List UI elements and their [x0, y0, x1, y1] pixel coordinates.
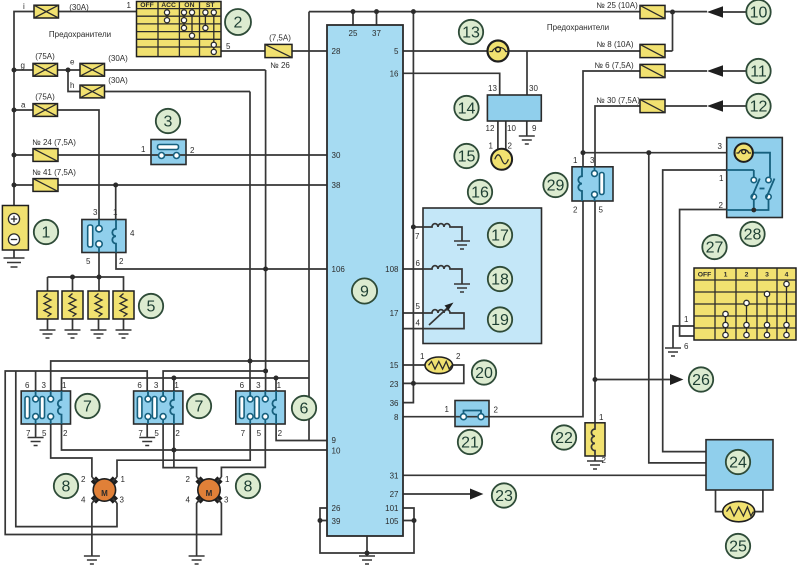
svg-text:4: 4	[81, 496, 86, 505]
fuse g (75A)	[21, 52, 58, 76]
svg-text:12: 12	[486, 124, 495, 133]
wire: ECU pin 17 to coil 19 and pin 4 return loop	[403, 313, 423, 329]
label: fuses title left	[49, 30, 111, 39]
wire: relay 4 pin 1 stub	[115, 185, 117, 220]
svg-text:5: 5	[226, 42, 231, 51]
wire: unit 28 pin 2 down to table 27	[680, 210, 727, 327]
svg-text:7: 7	[415, 232, 420, 241]
svg-text:19: 19	[491, 312, 509, 329]
svg-text:26: 26	[332, 504, 341, 513]
svg-text:3: 3	[256, 381, 261, 390]
ground: motor 1	[84, 556, 100, 564]
svg-text:№ 24 (7,5A): № 24 (7,5A)	[32, 138, 76, 147]
svg-text:№ 26: № 26	[270, 61, 290, 70]
svg-text:9: 9	[532, 124, 537, 133]
svg-text:2: 2	[719, 201, 724, 210]
callout 10	[746, 0, 770, 24]
callout 22	[552, 425, 576, 449]
wire: ECU pin 31 to unit 24	[403, 474, 706, 476]
svg-text:24: 24	[729, 455, 747, 472]
svg-text:28: 28	[744, 227, 762, 244]
wire: table 27 pin 1/6 bracket and ground branch	[673, 326, 694, 348]
wire: relay 6 pin 5 to motor 2 pin 1	[221, 424, 265, 477]
wire: fuse 41 / ECU pin 38 line	[14, 184, 327, 186]
svg-text:3: 3	[224, 496, 229, 505]
svg-text:2: 2	[186, 475, 191, 484]
svg-text:1: 1	[121, 475, 126, 484]
lamp 13	[488, 41, 509, 62]
svg-text:Предохранители: Предохранители	[49, 30, 111, 39]
svg-text:3: 3	[154, 381, 159, 390]
relay 7a	[21, 381, 70, 438]
junction dots: resistor bus	[70, 275, 102, 280]
callout 13	[459, 20, 483, 44]
wire: motor 1 pin 4 ground lead	[91, 503, 93, 556]
ground: coil 18	[454, 284, 470, 292]
motor 8b	[186, 475, 231, 505]
svg-text:5: 5	[416, 302, 421, 311]
unit 24	[706, 440, 773, 490]
wire: motor 1 pin 3 loop to left	[16, 371, 117, 527]
callout 27	[702, 235, 726, 259]
coil 19 variable with arrow	[423, 303, 464, 329]
callout 7b	[187, 394, 211, 418]
ground: unit 14 pin 9	[519, 136, 535, 144]
wire: motor 2 pin 4 ground lead	[196, 503, 198, 556]
svg-text:7: 7	[138, 429, 143, 438]
junction dots: right area	[581, 150, 652, 382]
svg-text:37: 37	[372, 29, 381, 38]
wire: ECU pin 36 stub	[403, 383, 413, 402]
svg-text:1: 1	[724, 272, 728, 279]
wire: resistor bank ground stubs	[48, 319, 124, 330]
svg-text:23: 23	[495, 488, 513, 505]
relay 4	[82, 208, 126, 266]
svg-text:23: 23	[390, 380, 399, 389]
svg-text:30: 30	[332, 151, 341, 160]
svg-text:3: 3	[718, 142, 723, 151]
fuse No 41 (7,5A)	[32, 168, 76, 191]
svg-text:№ 8 (10A): № 8 (10A)	[596, 40, 633, 49]
svg-text:5: 5	[257, 429, 262, 438]
svg-text:30: 30	[529, 84, 538, 93]
wire: unit 28 pin 1 to unit 24	[663, 170, 727, 452]
svg-text:3: 3	[120, 496, 125, 505]
callout 3	[156, 109, 180, 133]
arrow 11	[707, 65, 746, 77]
svg-text:№ 6 (7,5A): № 6 (7,5A)	[594, 61, 634, 70]
junction dots: supply vertical taps	[411, 225, 416, 386]
svg-text:29: 29	[547, 178, 565, 195]
wire: top bypass vertical left of ECU	[308, 12, 310, 441]
relay 6	[236, 381, 285, 438]
svg-text:108: 108	[385, 265, 399, 274]
svg-text:101: 101	[385, 504, 399, 513]
svg-text:13: 13	[488, 84, 497, 93]
ground: battery	[4, 258, 25, 267]
svg-text:15: 15	[390, 361, 399, 370]
svg-text:3: 3	[93, 208, 98, 217]
wire: relay 7a pin 6 stub	[35, 371, 37, 391]
wire: resistor bank bus	[48, 253, 124, 291]
callout 15	[454, 144, 478, 168]
svg-text:3: 3	[765, 272, 769, 279]
callout 18	[488, 267, 512, 291]
svg-text:1: 1	[174, 381, 179, 390]
svg-text:1: 1	[225, 475, 230, 484]
svg-text:21: 21	[461, 435, 479, 452]
svg-text:a: a	[21, 101, 26, 110]
svg-text:105: 105	[385, 517, 399, 526]
ground: resistor 4	[116, 330, 132, 338]
svg-text:9: 9	[360, 284, 369, 301]
svg-text:13: 13	[462, 25, 480, 42]
coil 22	[585, 413, 607, 465]
resistor 20	[420, 352, 461, 374]
svg-text:2: 2	[602, 456, 607, 465]
svg-text:2: 2	[573, 206, 578, 215]
fuse No 30 (7,5A)	[596, 96, 665, 113]
fuse No 8 (10A)	[596, 40, 665, 58]
svg-text:4: 4	[186, 496, 191, 505]
arrow 12	[707, 100, 746, 112]
svg-text:6: 6	[240, 381, 245, 390]
wire: motor 2 pin 3 long loop to relay pins 6	[5, 371, 221, 535]
callout 1	[34, 220, 58, 244]
svg-text:17: 17	[491, 228, 509, 245]
svg-text:6: 6	[416, 259, 421, 268]
svg-text:8: 8	[394, 413, 399, 422]
wire: relay 29 pin 2 to ECU pin 8 switch line	[403, 201, 583, 417]
ground: relay 7a pin 7	[28, 438, 44, 446]
fuse a (75A)	[21, 93, 58, 117]
svg-text:6: 6	[137, 381, 142, 390]
resistor bank 5	[37, 291, 134, 319]
svg-text:6: 6	[684, 342, 689, 351]
svg-text:10: 10	[507, 124, 516, 133]
wire: relay contact feed line from fuse h node	[51, 361, 309, 391]
wire: fuse 6 line and relay 29 pin 1	[583, 71, 707, 167]
svg-text:1: 1	[277, 381, 282, 390]
svg-text:2: 2	[190, 146, 195, 155]
svg-text:14: 14	[458, 101, 476, 118]
wire: arrow 26 branch	[595, 379, 671, 381]
svg-text:5: 5	[147, 299, 156, 316]
svg-text:5: 5	[154, 429, 159, 438]
callout 14	[454, 96, 478, 120]
svg-text:16: 16	[471, 185, 489, 202]
svg-text:3: 3	[164, 114, 173, 131]
svg-text:31: 31	[390, 472, 399, 481]
junction dot: relay 4 pin 1 tap	[113, 183, 118, 188]
svg-text:1: 1	[113, 208, 118, 217]
fuse No 26 (7,5A)	[265, 34, 292, 71]
ground: table 27	[665, 348, 681, 356]
callout 19	[488, 307, 512, 331]
svg-text:№ 25 (10A): № 25 (10A)	[596, 1, 638, 10]
svg-text:17: 17	[390, 309, 399, 318]
svg-text:1: 1	[420, 352, 425, 361]
fuse i (30A)	[23, 2, 89, 18]
svg-text:6: 6	[300, 401, 309, 418]
svg-text:Предохранители: Предохранители	[547, 23, 609, 32]
wire: unit 14 pin 30 stub	[526, 51, 528, 95]
svg-text:10: 10	[750, 5, 768, 22]
svg-text:(7,5A): (7,5A)	[269, 34, 291, 43]
svg-text:2: 2	[508, 142, 513, 151]
arrow 23 head	[470, 489, 483, 500]
label: fuses title right	[547, 23, 609, 32]
callout 24	[726, 450, 750, 474]
svg-text:15: 15	[458, 149, 476, 166]
wire: fuse 30 line and relay 29 pin 3	[595, 106, 707, 167]
svg-text:1: 1	[127, 1, 132, 10]
wire: ECU bottom ground stub	[366, 536, 368, 556]
svg-text:27: 27	[706, 240, 724, 257]
svg-text:39: 39	[332, 517, 341, 526]
callout 21	[458, 430, 482, 454]
lamp-switch unit 28	[718, 138, 783, 218]
svg-text:ACC: ACC	[161, 2, 176, 9]
svg-text:OFF: OFF	[140, 2, 154, 9]
svg-text:1: 1	[445, 405, 450, 414]
svg-text:i: i	[23, 2, 25, 11]
wire: ECU pin 5 lamp line to fuse 8	[403, 12, 673, 51]
svg-text:8: 8	[244, 479, 253, 496]
svg-text:ON: ON	[184, 2, 194, 9]
ground: resistor 3	[91, 330, 107, 338]
svg-text:h: h	[70, 81, 74, 90]
svg-text:№ 30 (7,5A): № 30 (7,5A)	[596, 96, 640, 105]
callout 9	[352, 278, 377, 303]
callout 23	[492, 483, 516, 507]
svg-text:10: 10	[332, 447, 341, 456]
wire: ECU pins 26/39 bottom bracket left	[320, 508, 367, 553]
ground: coil 17	[454, 241, 470, 249]
wire: relay 29 pin 5 to coil 22	[594, 201, 596, 423]
svg-text:5: 5	[86, 257, 91, 266]
svg-text:1: 1	[599, 413, 604, 422]
wire: ignition table pin 5 to fuse 26 to ECU pin 28	[221, 50, 327, 52]
coil 18	[423, 266, 462, 284]
ground: coil 22	[587, 461, 603, 469]
wire: relay 7b pin 5 to motor 2 pin 2	[163, 424, 197, 477]
callout 12	[746, 94, 770, 118]
svg-text:16: 16	[390, 70, 399, 79]
junction dots: left rail	[12, 68, 71, 188]
fuse e (30A)	[70, 54, 128, 76]
wire: fuse a to relay 4 pin 3	[14, 110, 99, 220]
coil 17	[423, 224, 462, 241]
svg-text:38: 38	[332, 181, 341, 190]
callout 8b	[236, 474, 260, 498]
svg-text:26: 26	[692, 372, 710, 389]
svg-text:(75A): (75A)	[35, 93, 55, 102]
svg-text:106: 106	[332, 265, 346, 274]
ground: resistor 1	[40, 330, 56, 338]
junction dots: ECU bottom bracket	[318, 518, 417, 556]
svg-text:ST: ST	[206, 2, 216, 9]
svg-text:2: 2	[175, 429, 180, 438]
callout 17	[488, 223, 512, 247]
callout 16	[468, 180, 492, 204]
wire: fuse 24 / switch 3 / ECU pin 30 line	[14, 154, 327, 156]
svg-text:2: 2	[745, 272, 749, 279]
svg-text:1: 1	[684, 315, 689, 324]
svg-text:4: 4	[130, 229, 135, 238]
svg-text:3: 3	[42, 381, 47, 390]
label: component 4	[130, 229, 135, 238]
svg-text:1: 1	[719, 174, 724, 183]
svg-text:2: 2	[494, 406, 499, 415]
wire: ECU pin 15 to resistor 20 and pin 23 return	[403, 365, 464, 383]
svg-text:4: 4	[416, 319, 421, 328]
wire: relay 6 pin 7 to motor 1 pin 1	[117, 424, 250, 477]
wire: fuse g/e feed line	[14, 69, 266, 71]
wire: relay 7b pin 7 ground stub	[146, 424, 148, 438]
source 15	[489, 142, 513, 170]
wire: left battery rail with fuse i feed	[14, 12, 137, 207]
svg-text:(30A): (30A)	[69, 3, 89, 12]
svg-text:36: 36	[390, 399, 399, 408]
svg-text:1: 1	[489, 142, 494, 151]
callout 5	[139, 294, 163, 318]
svg-text:2: 2	[456, 352, 461, 361]
wire: fuse e output down to relay 6 pin 3	[265, 70, 267, 391]
coil unit 17-19	[415, 208, 541, 344]
svg-text:6: 6	[25, 381, 30, 390]
svg-text:22: 22	[555, 430, 573, 447]
ground: motor 2	[189, 556, 205, 564]
ECU unit 9	[327, 25, 403, 536]
wire: ECU pins 101/105 bottom bracket right	[367, 508, 414, 553]
svg-text:2: 2	[81, 475, 86, 484]
svg-text:g: g	[21, 61, 25, 70]
svg-text:3: 3	[590, 156, 595, 165]
svg-text:2: 2	[119, 257, 124, 266]
svg-text:1: 1	[42, 225, 51, 242]
callout 7a	[75, 394, 99, 418]
svg-text:1: 1	[62, 381, 67, 390]
svg-text:12: 12	[750, 99, 768, 116]
wire: relay 7a pin 7 ground stub	[35, 424, 37, 438]
wire: ECU pin 27 line	[403, 493, 471, 495]
ignition switch table 2	[127, 1, 232, 57]
callout 29	[543, 173, 567, 197]
svg-text:2: 2	[63, 429, 68, 438]
svg-text:25: 25	[349, 29, 358, 38]
callout 8a	[54, 474, 78, 498]
wire: fuse h output down to relay node	[249, 92, 251, 392]
svg-text:25: 25	[729, 539, 747, 556]
svg-text:2: 2	[278, 429, 283, 438]
svg-text:5: 5	[599, 206, 604, 215]
ground: resistor 2	[65, 330, 81, 338]
svg-text:4: 4	[785, 272, 789, 279]
wire: battery ground stub	[13, 250, 15, 258]
arrow 10	[707, 6, 746, 18]
callout 20	[472, 360, 496, 384]
svg-text:9: 9	[332, 436, 337, 445]
junction dots: relay feed lines	[171, 267, 278, 453]
arrow 26 head	[670, 374, 683, 385]
wire: supply vertical right of ECU	[412, 12, 414, 384]
callout 26	[689, 367, 713, 391]
switch 3	[141, 140, 195, 165]
svg-text:11: 11	[750, 64, 767, 81]
relay 29	[572, 156, 613, 215]
wire: fuse h branch	[68, 70, 250, 92]
relay 7b	[134, 381, 183, 438]
switch 21	[445, 401, 499, 427]
callout 11	[746, 59, 770, 83]
wire: coil 22 ground stub	[594, 456, 596, 461]
svg-text:7: 7	[241, 429, 246, 438]
svg-text:7: 7	[83, 399, 92, 416]
svg-text:M: M	[101, 489, 108, 498]
switch selector table 27	[684, 268, 796, 351]
svg-text:M: M	[206, 489, 213, 498]
svg-text:OFF: OFF	[698, 272, 712, 279]
ground: relay 7b pin 7	[139, 438, 155, 446]
wire: unit 14 pins 12/10 to source 15 and pin 9 ground	[498, 121, 527, 149]
ground: ECU bottom	[359, 556, 375, 564]
wire: coil 17 feed from supply vertical	[413, 226, 423, 228]
svg-text:2: 2	[234, 15, 243, 32]
svg-text:20: 20	[475, 365, 493, 382]
svg-text:7: 7	[195, 399, 204, 416]
wire: relay 7a pin 5 to motor 1 pin 2	[51, 424, 92, 477]
svg-text:e: e	[70, 58, 75, 67]
wire: ECU pin 16 to unit 14 pin 13	[403, 73, 500, 95]
wire: relay 7b pin 3 to relay 6 pin 3 link	[163, 371, 266, 391]
svg-text:5: 5	[42, 429, 47, 438]
svg-text:(75A): (75A)	[35, 52, 55, 61]
fuse No 25 (10A)	[596, 1, 665, 19]
fuse No 24 (7,5A)	[32, 138, 76, 161]
wire: lamp 25 bracket under unit 24	[716, 490, 763, 512]
wire: relay 4 pin 2 to ECU pin 106 / coil 18 pin 108	[116, 253, 423, 269]
callout 6	[292, 396, 316, 420]
lamp 25	[723, 501, 755, 521]
svg-text:(30A): (30A)	[108, 76, 128, 85]
svg-text:8: 8	[62, 479, 71, 496]
svg-text:27: 27	[390, 490, 399, 499]
fuse h (30A)	[70, 76, 128, 98]
svg-text:5: 5	[394, 47, 399, 56]
svg-text:28: 28	[332, 47, 341, 56]
svg-text:№ 41 (7,5A): № 41 (7,5A)	[32, 168, 76, 177]
wire: ECU pin 10 line to relay coils pin 2	[62, 424, 328, 468]
callout 2	[225, 9, 251, 35]
fuse No 6 (7,5A)	[594, 61, 665, 78]
svg-text:1: 1	[141, 145, 146, 154]
wire: lamp unit 28 pin 3 feed	[583, 152, 727, 154]
wire: relay 6 pin 2 to ECU pin 9	[276, 424, 327, 441]
battery 1	[2, 206, 28, 251]
callout 28	[740, 222, 764, 246]
svg-text:7: 7	[26, 429, 31, 438]
svg-text:1: 1	[573, 156, 578, 165]
unit 14	[486, 84, 542, 133]
motor 8a	[81, 475, 126, 505]
wire: relay coil line pins 1	[62, 378, 310, 391]
svg-text:(30A): (30A)	[108, 54, 128, 63]
callout 25	[726, 534, 750, 558]
wire: unit 28 pin 3 branch down to unit 24	[649, 153, 706, 463]
svg-text:18: 18	[491, 272, 509, 289]
wire: top supply line from ECU pins 25/37 to fuse 25	[309, 12, 707, 25]
